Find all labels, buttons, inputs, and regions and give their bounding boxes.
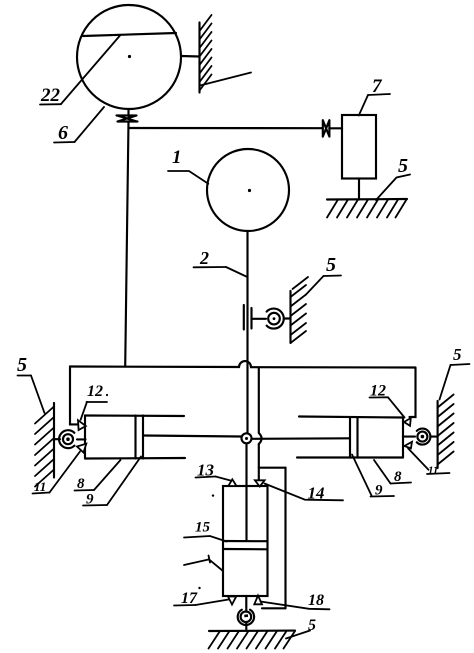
svg-text:12: 12 [87,383,103,400]
svg-text:6: 6 [58,122,68,144]
svg-text:1: 1 [172,147,182,168]
svg-text:12: 12 [370,383,386,400]
svg-text:18: 18 [308,592,324,609]
svg-text:22: 22 [40,85,61,106]
svg-text:2: 2 [199,248,209,268]
svg-text:11: 11 [34,479,46,494]
svg-text:5: 5 [17,354,27,376]
svg-text:11: 11 [428,465,438,477]
svg-text:5: 5 [326,254,336,276]
svg-text:5: 5 [398,155,408,177]
svg-text:5: 5 [453,345,462,364]
svg-text:15: 15 [195,520,211,536]
